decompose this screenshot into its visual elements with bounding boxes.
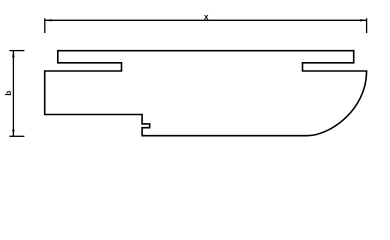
- arrowhead left (x dim): [45, 19, 52, 21]
- arrowhead down (b dim): [12, 130, 14, 137]
- svg-text:x: x: [204, 12, 209, 21]
- extension tick top (b dim): [9, 50, 24, 52]
- dimension line x (horizontal, top): [45, 18, 367, 33]
- arrowhead right (x dim): [360, 19, 367, 21]
- extension tick right (x dim): [366, 18, 368, 33]
- svg-text:b: b: [4, 91, 13, 96]
- dimension line b (vertical, left): [9, 51, 24, 137]
- arrowhead up (b dim): [12, 51, 14, 58]
- extension tick left (x dim): [44, 18, 46, 33]
- door frame profile outline: [45, 51, 367, 136]
- extension tick bottom (b dim): [9, 135, 24, 137]
